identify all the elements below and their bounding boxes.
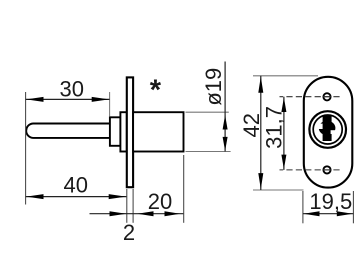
dimension d19 up arrow <box>223 115 228 130</box>
extension line body right (for 20) <box>183 155 185 223</box>
svg-text:30: 30 <box>60 77 84 102</box>
keyway white notch left <box>317 124 323 129</box>
extension line diameter top <box>186 111 229 113</box>
flange plate <box>127 77 133 187</box>
collar ring large <box>120 112 126 151</box>
lock cylinder inner circle <box>313 115 342 144</box>
dimension 42 up arrow <box>258 77 263 93</box>
extension line oval right (for 19,5) <box>352 191 354 223</box>
extension line oval bottom (for 42) <box>253 189 304 191</box>
dimension d19 line <box>224 62 226 152</box>
dimension 42 line <box>260 76 262 190</box>
dimension 31,7 up arrow <box>281 97 286 112</box>
dimension 30 line <box>26 98 110 100</box>
svg-text:19,5: 19,5 <box>309 189 352 214</box>
bottom hole centerline dash <box>323 169 331 171</box>
svg-text:31,7: 31,7 <box>261 106 286 149</box>
dimension 19,5 line <box>303 213 354 215</box>
lock cylinder outer circle <box>309 111 346 148</box>
keyway slot <box>323 116 332 141</box>
keyway white notch right <box>331 130 338 134</box>
svg-text:40: 40 <box>63 173 87 198</box>
dashed centerline bottom hole <box>280 169 342 171</box>
svg-text:20: 20 <box>148 189 172 214</box>
dimension 40 line <box>26 196 127 198</box>
extension line flange right (for 2 and 20) <box>132 189 134 223</box>
dimension 2 leader line with outside arrow <box>90 213 134 215</box>
dimension 30 left arrow <box>26 97 43 102</box>
dimension d19 down arrow <box>223 137 228 151</box>
svg-text:42: 42 <box>239 113 264 137</box>
top screw hole <box>323 93 330 100</box>
dimension 40 left arrow <box>26 194 43 199</box>
dimension 20 left arrow <box>137 211 153 216</box>
dimension 31,7 down arrow <box>281 155 286 170</box>
pin plunger (side view) <box>26 124 110 138</box>
bottom screw hole <box>323 166 330 173</box>
dimension 2 outside arrow <box>110 211 127 216</box>
extension line diameter bottom <box>186 151 231 153</box>
extension line right of 30 <box>109 92 111 116</box>
dashed centerline top hole <box>280 96 342 98</box>
dimension 19,5 right arrow <box>337 211 353 216</box>
cylinder body (side view) <box>133 112 183 151</box>
svg-text:2: 2 <box>123 220 135 245</box>
dimension 20 line <box>133 213 184 215</box>
extension line oval left (for 19,5) <box>302 191 304 223</box>
dimension 20 right arrow <box>165 211 181 216</box>
dimension 19,5 left arrow <box>304 211 320 216</box>
extension line left (pin tip, shared by 30 and 40) <box>25 92 27 205</box>
extension line flange left (for 2) <box>126 189 128 223</box>
dimension 30 right arrow <box>92 97 109 102</box>
dimension 31,7 line <box>283 97 285 170</box>
extension line oval top (for 42) <box>253 75 318 77</box>
svg-text:*: * <box>150 75 162 107</box>
collar ring small <box>110 117 121 146</box>
dimension 40 right arrow <box>109 194 126 199</box>
top hole centerline dash <box>323 96 331 98</box>
keyway bulge <box>319 121 336 136</box>
oval face plate (front view) <box>304 77 353 188</box>
svg-text:ø19: ø19 <box>201 68 226 106</box>
dimension 42 down arrow <box>258 173 263 189</box>
